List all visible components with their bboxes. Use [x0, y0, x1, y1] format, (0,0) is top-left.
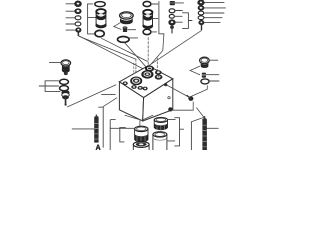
wire B2 to block — [79, 36, 143, 69]
dashed drop to boss2 — [147, 38, 149, 65]
leader cap M — [209, 59, 217, 61]
leader lines stack A — [66, 4, 76, 30]
wire bracket D to block — [151, 34, 164, 64]
bracket D — [159, 2, 164, 34]
grommet F5 — [199, 20, 204, 30]
cup K2 — [153, 132, 167, 150]
cap M — [200, 57, 210, 68]
cup J2 — [133, 142, 149, 150]
boss ring D — [155, 70, 163, 79]
body block — [119, 66, 172, 121]
leader plug G — [49, 62, 61, 64]
o-ring D top — [143, 1, 151, 6]
boss ring C2 — [143, 87, 148, 91]
grommet A5 — [76, 28, 81, 37]
o-ring C2 — [118, 37, 130, 43]
leader o-ring M3 — [209, 80, 219, 82]
o-ring B top — [95, 2, 105, 7]
dashed drop line left boss — [135, 59, 137, 76]
bracket H — [99, 107, 104, 147]
label A — [96, 145, 101, 151]
plug E1 — [170, 1, 175, 5]
v-guide under block — [125, 115, 153, 120]
bracket G — [45, 81, 60, 92]
leader — [151, 31, 157, 33]
screw N floating — [187, 96, 193, 101]
strainer P — [202, 116, 207, 150]
bracket J outer — [110, 120, 115, 150]
wire B to boss — [102, 38, 148, 61]
leader o-ring C2 — [130, 37, 138, 39]
o-ring E3 — [169, 14, 174, 18]
leader — [151, 3, 158, 5]
boss ring A — [123, 81, 128, 85]
leader — [153, 18, 158, 20]
leader nipple — [128, 29, 136, 31]
leader K2 — [167, 140, 175, 142]
leader J1 — [110, 127, 134, 129]
o-ring E2 — [169, 9, 175, 13]
arrow to cap M — [190, 66, 200, 75]
wire P top — [197, 108, 204, 118]
hole right face — [168, 97, 170, 99]
dashed drop line 2 — [133, 63, 135, 76]
arrow to cap — [114, 23, 121, 30]
boss big left — [131, 77, 142, 85]
nut M2 — [202, 73, 206, 78]
washer F3 — [198, 11, 203, 15]
washer F2 — [198, 6, 204, 10]
boss ring B — [131, 85, 136, 89]
plug G — [61, 60, 71, 75]
wire M to block — [192, 86, 208, 97]
wire L path N — [171, 102, 193, 110]
wire G to block — [68, 85, 117, 107]
o-ring M3 — [201, 79, 209, 84]
filter J1 — [135, 126, 148, 142]
o-ring B bottom — [95, 30, 104, 36]
check valve D — [143, 10, 152, 29]
wire from A5 to block — [79, 36, 136, 59]
bracket K — [175, 118, 180, 146]
leader body left face — [102, 94, 116, 96]
nipple under cap — [123, 27, 127, 32]
wire cap group to block — [125, 43, 147, 68]
wire H to block — [103, 98, 117, 107]
spring H — [94, 115, 98, 143]
gasket F4 — [198, 16, 204, 20]
screw N2 corner — [168, 107, 173, 111]
gasket A3 — [75, 16, 81, 20]
valve E5 — [170, 26, 174, 34]
nut A1 — [75, 1, 82, 7]
wire F to block corner — [149, 31, 202, 66]
gasket A4 — [75, 22, 81, 26]
leader nut M2 — [206, 74, 219, 76]
cap C2 — [120, 12, 134, 24]
o-ring G2 — [60, 86, 69, 91]
leader valve B — [88, 17, 96, 19]
bracket B — [88, 4, 95, 34]
bracket P — [190, 122, 192, 150]
washer A2 — [75, 9, 81, 14]
o-ring D bottom — [143, 29, 151, 34]
leader K1 — [168, 118, 175, 120]
dashed drop line boss D — [156, 58, 158, 71]
o-ring G1 — [60, 79, 69, 84]
bracket J — [120, 128, 126, 142]
filter K1 — [154, 117, 167, 130]
leader strainer P — [207, 127, 218, 129]
fitting G3 — [61, 90, 69, 105]
boss tall main — [142, 66, 154, 79]
washer E4 — [169, 20, 176, 25]
leader spring H — [72, 128, 94, 130]
wire hole to screw N — [167, 85, 190, 98]
boss ring C — [138, 86, 143, 90]
bracket E — [183, 13, 189, 29]
check valve B — [96, 9, 106, 28]
screw F1 — [198, 0, 204, 5]
screw hole dot — [164, 83, 167, 86]
